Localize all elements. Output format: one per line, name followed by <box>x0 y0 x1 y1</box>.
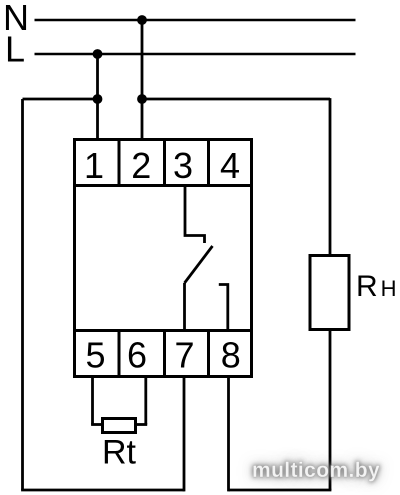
wire blade to terminal 7 <box>183 283 186 331</box>
wire left vertical <box>21 99 24 490</box>
wire to Rt left <box>91 423 103 426</box>
wire terminal 6 down <box>144 377 147 425</box>
device body outline <box>75 140 252 377</box>
switch fixed contact hook to terminal 8 <box>219 285 228 331</box>
bottom strip divider 5|6 <box>118 331 121 377</box>
junction dot L-branch <box>93 49 103 59</box>
svg-text:L: L <box>5 29 25 70</box>
resistor RH <box>310 256 349 330</box>
switch blade (open contact) <box>185 246 213 283</box>
top strip divider 2|3 <box>163 140 166 186</box>
wire N line <box>35 19 356 22</box>
wire L to terminal 1 <box>96 54 99 140</box>
svg-text:2: 2 <box>131 145 151 186</box>
svg-text:Rt: Rt <box>102 434 137 472</box>
resistor Rt <box>103 419 136 433</box>
wire terminal 7 down <box>183 377 186 492</box>
top strip divider 1|2 <box>118 140 121 186</box>
svg-text:1: 1 <box>84 145 104 186</box>
wire Rt right <box>136 423 148 426</box>
wire left branch horizontal <box>23 98 98 101</box>
wire N to terminal 2 <box>141 20 144 140</box>
bottom terminal strip top edge <box>75 329 252 332</box>
bottom strip divider 7|8 <box>207 331 210 377</box>
wire bottom horizontal to terminal 7 <box>21 489 184 492</box>
top strip divider 3|4 <box>207 140 210 186</box>
svg-text:3: 3 <box>173 145 193 186</box>
svg-text:5: 5 <box>85 335 105 376</box>
wire RH bottom down <box>329 330 332 491</box>
top terminal strip bottom edge <box>75 184 252 187</box>
junction dot left branch <box>93 94 103 104</box>
wire terminal 8 down <box>227 377 230 492</box>
junction dot right branch <box>137 94 147 104</box>
svg-text:RH: RH <box>356 270 397 303</box>
wire L line <box>35 53 356 56</box>
wire terminal 5 down <box>91 377 94 425</box>
wire down to RH top <box>329 98 332 255</box>
svg-text:8: 8 <box>221 335 241 376</box>
wire right branch horizontal <box>142 98 330 101</box>
watermark multicom.by <box>252 459 380 483</box>
wire bottom horizontal terminal 8 to RH <box>229 489 332 492</box>
bottom strip divider 6|7 <box>163 331 166 377</box>
svg-text:6: 6 <box>127 335 147 376</box>
switch contact: fixed lead from terminal 3 with jog <box>185 186 205 244</box>
svg-text:4: 4 <box>220 145 240 186</box>
svg-text:7: 7 <box>174 335 194 376</box>
junction dot N-branch <box>137 15 147 25</box>
